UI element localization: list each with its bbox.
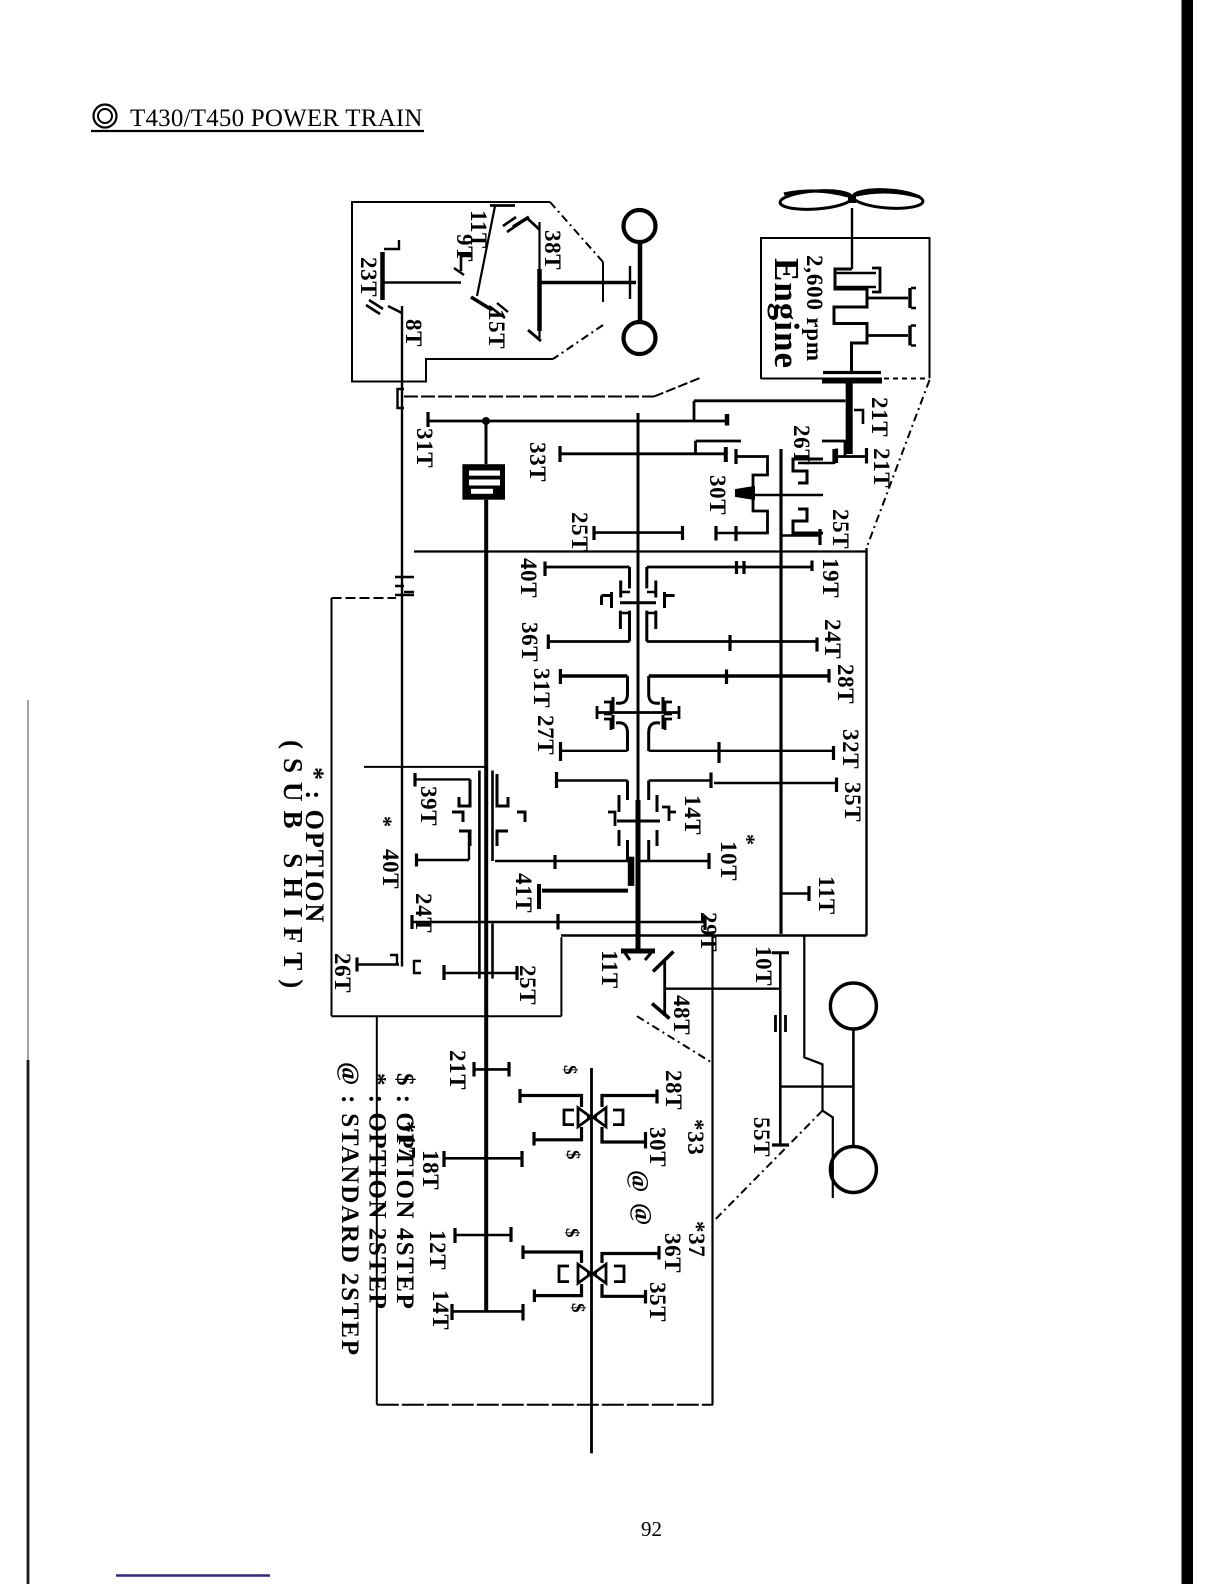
svg-text:92: 92	[641, 1517, 662, 1541]
rear axle connector	[780, 1085, 852, 1087]
svg-text:T430/T450 POWER TRAIN: T430/T450 POWER TRAIN	[130, 105, 423, 132]
dash-dot link D2	[713, 1111, 823, 1222]
gear 32T mid tick cap	[717, 742, 720, 763]
hourglass2 left hub bracket	[559, 1266, 569, 1282]
rear axle line	[665, 988, 781, 990]
engine piston 3 cap	[908, 326, 911, 346]
hourglass2 right top cap	[657, 1246, 660, 1260]
svg-text:35T: 35T	[840, 782, 865, 822]
gear 26T sub line	[357, 963, 399, 965]
svg-text:36T: 36T	[660, 1233, 685, 1273]
gear 24T lower left cap	[410, 915, 413, 929]
svg-text:30T: 30T	[645, 1127, 670, 1167]
svg-text:31T: 31T	[529, 668, 554, 708]
hourglass2 left bottom arm	[534, 1284, 581, 1296]
gear 19T right cap	[810, 561, 813, 572]
front axle case chamfer dash top	[550, 202, 603, 262]
pto clutch pack	[462, 464, 505, 500]
gear 29T right cap	[703, 916, 706, 930]
hourglass2 bowtie	[578, 1264, 591, 1283]
gear 12T line	[455, 1234, 511, 1237]
bevel 15T bar	[471, 297, 492, 310]
front axle case outline	[352, 202, 553, 382]
svg-text:14T: 14T	[680, 795, 705, 835]
gear 11T cap	[807, 886, 810, 901]
claw cluster S3 round right hooks	[665, 702, 672, 730]
case left dashed link	[332, 597, 397, 599]
gear 31T line	[428, 420, 727, 423]
rear wheel top	[830, 983, 876, 1029]
front wheel top	[624, 210, 656, 242]
front wheel axle bar	[638, 242, 643, 323]
hourglass1 right bottom cap	[644, 1132, 647, 1149]
gear 41T line thick	[542, 889, 628, 893]
gear 25T sub left cap	[442, 965, 445, 980]
gear 28T right cap	[827, 669, 830, 683]
engine box bottom dashed edge	[761, 378, 825, 380]
hourglass1 left top cap	[518, 1089, 521, 1103]
svg-text:27T: 27T	[533, 715, 558, 755]
synchro S2 left bottom arm	[736, 499, 768, 533]
shaft S4 sleeve left wall	[478, 771, 481, 979]
gear 30T line	[716, 532, 741, 535]
engine piston 1 conrod channel	[836, 273, 876, 287]
gear 31T S3 tick	[637, 413, 640, 426]
svg-text:10T: 10T	[716, 841, 741, 881]
gear 33T left cap	[558, 446, 561, 462]
gear 25T S2 line	[781, 534, 820, 537]
gear 21T pto left cap	[472, 1062, 475, 1077]
gear 25T S3 line	[594, 531, 683, 534]
gear 14T/35T row line	[557, 779, 628, 781]
synchro S2 right top claw	[793, 459, 823, 483]
gear 18T line	[444, 1157, 522, 1160]
gear 18T right cap	[520, 1151, 523, 1167]
shaft S3 thick lower	[636, 800, 641, 951]
svg-text:18T: 18T	[418, 1150, 443, 1190]
gear 14T creeper right cap	[521, 1304, 524, 1321]
hourglass1 right hub bracket	[613, 1110, 623, 1125]
shaft S5 front drive	[401, 306, 403, 967]
gear 10T right cap	[707, 853, 710, 869]
claw cluster S3 round left ticks	[612, 697, 615, 729]
dash-dot link D1	[637, 1016, 713, 1063]
front axle bearing tick	[629, 266, 631, 299]
svg-text:36T: 36T	[517, 622, 542, 662]
hourglass1 left hub bracket	[564, 1110, 574, 1125]
claw cluster S3 upper right wall	[645, 567, 648, 642]
gear 23T bottom hook	[388, 306, 402, 313]
svg-text:8T: 8T	[401, 319, 426, 347]
svg-text:23T: 23T	[356, 257, 381, 297]
rear wheel axle	[852, 1029, 855, 1147]
front wheel bottom	[624, 322, 656, 354]
gear 10T mid line	[495, 860, 628, 862]
crown wheel diagonal bottom	[652, 1004, 670, 1019]
synchro S2 mid line	[752, 494, 823, 497]
right scanner black bar	[1182, 0, 1194, 1584]
line B to synchro	[696, 440, 742, 443]
svg-text:24T: 24T	[820, 619, 845, 659]
crown wheel gear line	[663, 961, 666, 1016]
hourglass1 right bottom arm	[602, 1127, 646, 1142]
svg-text:@: @	[626, 1170, 652, 1193]
engine piston 2 cap	[908, 288, 911, 308]
clutch thick bar	[822, 378, 882, 384]
gear 29T bevel pinion bar	[621, 949, 655, 954]
svg-text:12T: 12T	[425, 1230, 450, 1270]
gear 14T right cap	[709, 773, 712, 789]
pto rear shaft top cap 10T	[776, 952, 785, 954]
gear 35T right cap	[835, 778, 838, 793]
gear 23T bevel marks	[366, 300, 383, 314]
gear 21T pto line	[474, 1068, 509, 1071]
gear 24T right cap	[815, 638, 818, 652]
gear 41T cap	[537, 884, 541, 909]
shaft S5 top bearing bracket	[398, 389, 405, 408]
svg-text:35T: 35T	[645, 1282, 670, 1322]
case mid edge	[414, 550, 867, 552]
gear 26T line	[798, 462, 834, 465]
engine piston 3 rod	[867, 334, 908, 337]
gear 27T/32T row line	[561, 750, 628, 752]
gear 38T stem	[538, 222, 540, 338]
gear 21T engine line	[837, 455, 867, 458]
fan shaft	[851, 208, 853, 269]
hourglass1 right top cap	[655, 1090, 658, 1104]
claw cluster S3 upper left wall	[628, 567, 631, 642]
gear 25T sub hook	[414, 961, 421, 973]
gear 23T top hook	[384, 240, 399, 249]
gear 26T sub cap	[355, 958, 358, 972]
gear 38T bevel mark bottom	[528, 330, 541, 341]
svg-text:24T: 24T	[411, 893, 436, 933]
svg-text:41T: 41T	[511, 873, 536, 913]
svg-text:48T: 48T	[669, 995, 694, 1035]
hourglass2 left bottom cap	[533, 1290, 536, 1303]
gear 21T pto right cap	[507, 1062, 510, 1077]
hourglass1 right top arm	[602, 1096, 657, 1108]
svg-text:*: *	[372, 816, 397, 828]
svg-text:21T: 21T	[445, 1050, 470, 1090]
claw cluster S3 round left hooks	[604, 702, 611, 730]
left page-edge line upper	[27, 700, 29, 1060]
gear 31T lower cap	[559, 669, 562, 684]
creeper box left wall	[376, 1016, 378, 1404]
gear 21T left cap	[835, 449, 838, 464]
svg-text:$: $	[559, 1065, 580, 1075]
gear 40T/19T row line	[547, 566, 630, 569]
shaft S6 creeper	[590, 1068, 593, 1453]
sub-shift box bottom edge	[332, 1015, 562, 1017]
gear 55T cap	[772, 1143, 789, 1146]
svg-text:19T: 19T	[818, 558, 843, 598]
svg-text:10T: 10T	[751, 946, 776, 986]
claw cluster S4 sleeve	[452, 774, 525, 846]
gear 24T/29T row line	[412, 921, 705, 923]
gear 21T upper hook	[854, 410, 863, 424]
gear 10T mid tick cap	[553, 855, 556, 869]
shaft S3 shift collar	[628, 857, 635, 886]
pto rear coupler	[776, 1015, 786, 1032]
sub-shift box top edge	[364, 766, 488, 768]
svg-text:*37: *37	[684, 1221, 709, 1257]
gear 25T S3 left cap	[592, 526, 595, 540]
shaft S4 pto main	[484, 500, 488, 1312]
svg-text:29T: 29T	[696, 912, 721, 952]
svg-text:21T: 21T	[869, 448, 894, 488]
svg-text:28T: 28T	[661, 1070, 686, 1110]
gear 10T right line	[640, 860, 709, 862]
gear 31T/28T row line	[560, 674, 627, 677]
gear 11T line	[781, 892, 809, 894]
gear 33T right cap	[724, 447, 728, 462]
gear 40T option cap	[415, 854, 418, 867]
gear 40T option line	[417, 859, 470, 861]
claw cluster S3 lower walls	[628, 781, 649, 862]
sub-shift box right step	[560, 937, 562, 1016]
crown wheel diagonal top	[653, 952, 674, 972]
case top edge	[404, 396, 654, 398]
header bullet circle	[94, 105, 117, 128]
gear 21T right cap	[865, 448, 868, 464]
claw cluster S3 right outer hook	[665, 592, 675, 608]
svg-text:$: $	[562, 1150, 583, 1160]
dash-dot link engine corner to case corner	[867, 380, 930, 548]
shaft S4 pto upper	[485, 422, 488, 465]
bevel 11T marks	[503, 217, 520, 232]
gear 36T cap	[547, 635, 550, 650]
engine piston 2 rod	[867, 297, 908, 300]
hourglass2 left top arm	[523, 1252, 582, 1263]
svg-text:11T: 11T	[597, 950, 622, 989]
kingpin shaft	[477, 206, 495, 296]
claw cluster S3 lower ticks	[619, 795, 657, 846]
header underline	[91, 130, 424, 132]
svg-text:32T: 32T	[838, 729, 863, 769]
gear 33T line	[560, 452, 726, 455]
input jog vertical	[693, 401, 696, 421]
claw cluster S3 round mid caps	[597, 706, 679, 719]
svg-text:26T: 26T	[330, 953, 355, 993]
left page-edge line lower	[27, 1060, 30, 1584]
front axle case right edge	[602, 262, 604, 302]
gear 39T cap	[413, 773, 416, 787]
gear 28T mid cap	[725, 670, 728, 685]
gear 40T cap	[543, 562, 546, 577]
hourglass2 right top arm	[602, 1254, 659, 1264]
svg-text:38T: 38T	[540, 230, 565, 270]
synchro S2 right bottom claw	[793, 509, 823, 533]
case right wall	[865, 548, 867, 936]
fan hub	[848, 195, 856, 203]
gear 24T tick cap	[556, 914, 559, 930]
claw cluster S3 round mid line	[597, 711, 679, 714]
svg-text:30T: 30T	[705, 475, 730, 515]
engine piston 1 cap	[872, 268, 880, 292]
svg-text:* : OPTION 2STEP: * : OPTION 2STEP	[364, 1073, 391, 1310]
gear 26T cap	[832, 449, 835, 464]
fan blade right	[852, 188, 923, 211]
gear 18T left cap	[442, 1151, 445, 1167]
fan blade top edge shading	[784, 191, 848, 196]
front axle case chamfer dash bottom	[553, 325, 603, 359]
claw cluster S3 upper hooks	[622, 592, 655, 613]
bevel pinion flukes	[625, 953, 651, 960]
synchro S2 dark wedge	[736, 487, 754, 499]
hourglass1 left top arm	[520, 1096, 582, 1108]
svg-text:14T: 14T	[428, 1290, 453, 1330]
claw cluster S3 lower outer hooks	[608, 807, 676, 826]
svg-text:15T: 15T	[484, 309, 509, 349]
bevel 9T bracket	[461, 256, 472, 271]
hourglass2 right hub bracket	[614, 1266, 624, 1282]
svg-text:*33: *33	[683, 1119, 708, 1155]
case bottom edge	[561, 934, 867, 936]
svg-text:25T: 25T	[515, 965, 540, 1005]
case left wall	[331, 598, 333, 1016]
gear 39T line	[415, 778, 470, 780]
hourglass1 left bottom cap	[532, 1132, 535, 1146]
svg-text:11T: 11T	[814, 876, 839, 915]
claw cluster S3 round left	[616, 676, 628, 751]
bottom-left blue rule	[116, 1574, 270, 1576]
kingpin top cap	[490, 204, 515, 207]
claw cluster S3 upper ticks	[620, 581, 655, 630]
creeper box bottom edge	[377, 1404, 713, 1406]
pto rear shaft	[779, 953, 782, 1145]
gear 14T left cap	[555, 772, 558, 788]
jog vertical to 33T	[694, 441, 697, 454]
hourglass2 left top cap	[521, 1246, 524, 1260]
fan blade left	[779, 189, 852, 212]
svg-text:@ : STANDARD 2STEP: @ : STANDARD 2STEP	[336, 1062, 363, 1357]
synchro S2 left top arm	[736, 457, 768, 488]
line B right segment	[822, 441, 845, 457]
gear 31T right cap	[725, 414, 730, 426]
front axle link	[540, 281, 636, 285]
input line from clutch	[694, 399, 846, 402]
svg-text:28T: 28T	[833, 664, 858, 704]
gear 25T S3 right cap	[681, 526, 684, 540]
gear 36T/24T row line	[548, 640, 629, 643]
svg-text:Engine: Engine	[767, 258, 806, 369]
shaft S2	[779, 449, 782, 934]
synchro S2 left bottom cap	[734, 526, 737, 541]
flywheel disc thin bar	[823, 371, 881, 374]
claw cluster S3 mid cross line	[620, 601, 656, 604]
hourglass1 left bottom arm	[534, 1127, 582, 1140]
gear 40T option hook	[459, 831, 469, 860]
gear 25T sub line	[444, 972, 517, 974]
shaft S5 coupler	[395, 577, 414, 595]
svg-text:$: $	[561, 1228, 582, 1238]
claw cluster S3 lower mid line	[617, 820, 660, 823]
svg-text:40T: 40T	[516, 558, 541, 598]
engine box outline	[761, 238, 930, 379]
svg-text:40T: 40T	[378, 849, 403, 889]
claw cluster S3 left outer hook	[602, 592, 612, 608]
front input shaft	[384, 281, 461, 283]
rear wheel bottom	[830, 1147, 876, 1193]
svg-text:31T: 31T	[412, 428, 437, 468]
svg-text:$: $	[567, 1303, 588, 1313]
svg-text:55T: 55T	[749, 1117, 774, 1157]
gear 14T creeper left cap	[450, 1304, 453, 1320]
gear 25T S2 cap	[818, 529, 821, 545]
gear 19T double cap	[735, 561, 738, 574]
claw cluster S3 round right	[649, 676, 660, 751]
shaft S4 sleeve right wall	[491, 771, 494, 862]
shaft S3 main	[637, 421, 640, 800]
hourglass2 right bottom arm	[602, 1284, 646, 1296]
gear 36T mid cap	[728, 635, 731, 651]
junction dot S4	[482, 417, 490, 425]
svg-text:$ : OPTION 4STEP: $ : OPTION 4STEP	[391, 1073, 418, 1310]
case top diagonal to clutch	[654, 378, 700, 397]
bevel 15T bracket	[489, 303, 508, 318]
hourglass1 bowtie	[578, 1108, 591, 1127]
claw cluster S3 round right ticks	[662, 697, 665, 729]
gear 25T sub right cap	[515, 966, 518, 980]
svg-text:(SUB SHIFT): (SUB SHIFT)	[278, 740, 308, 997]
synchro S2 left top cap	[734, 449, 737, 464]
rear axle housing step outline	[804, 937, 833, 1199]
gear 12T left cap	[453, 1228, 456, 1243]
gear 12T right cap	[509, 1227, 512, 1242]
gear 23T bar	[380, 252, 385, 300]
gear 30T cap	[714, 526, 717, 541]
clutch output shaft	[846, 383, 853, 454]
gear 27T cap	[559, 742, 562, 761]
hourglass2 right bottom cap	[644, 1290, 647, 1304]
gear 14T creeper line	[452, 1310, 523, 1313]
svg-text:25T: 25T	[567, 512, 592, 552]
creeper box right wall	[711, 936, 713, 1405]
gear 26T hook	[390, 955, 397, 965]
gear 31T left cap	[426, 412, 429, 427]
gear 38T bevel mark top	[528, 219, 540, 230]
svg-text:39T: 39T	[416, 786, 441, 826]
svg-text:25T: 25T	[828, 509, 853, 549]
svg-text:21T: 21T	[867, 397, 892, 437]
gear 32T right cap	[832, 746, 835, 760]
gear 38T bar	[537, 269, 542, 331]
svg-text:33T: 33T	[525, 442, 550, 482]
engine crankshaft zigzag	[834, 269, 867, 371]
svg-text:@: @	[629, 1203, 655, 1226]
